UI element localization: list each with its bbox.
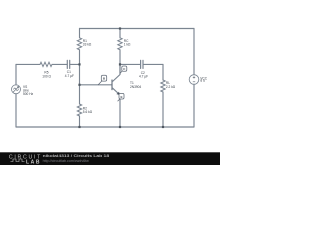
- svg-text:E: E: [120, 95, 122, 99]
- svg-text:2N3904: 2N3904: [130, 85, 141, 89]
- svg-text:1 kΩ: 1 kΩ: [124, 43, 131, 47]
- svg-text:100 Ω: 100 Ω: [42, 74, 51, 78]
- svg-text:4.7 µF: 4.7 µF: [65, 74, 74, 78]
- svg-text:2.2 kΩ: 2.2 kΩ: [166, 85, 176, 89]
- svg-text:500 Hz: 500 Hz: [23, 92, 34, 96]
- svg-text:4.7 µF: 4.7 µF: [139, 75, 148, 79]
- svg-text:33 kΩ: 33 kΩ: [83, 43, 92, 47]
- svg-text:5.6 kΩ: 5.6 kΩ: [83, 110, 93, 114]
- svg-text:LAB: LAB: [26, 159, 40, 165]
- svg-text:http://circuitlab.com/cwdv6tw: http://circuitlab.com/cwdv6tw: [43, 159, 90, 163]
- svg-text:nikolai4313 / Circuits Lab 18: nikolai4313 / Circuits Lab 18: [43, 153, 111, 158]
